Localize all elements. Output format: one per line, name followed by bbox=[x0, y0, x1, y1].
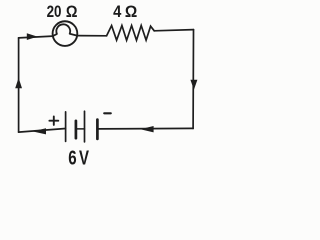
svg-text:4: 4 bbox=[113, 2, 122, 21]
wire bottom-right horizontal bbox=[98, 127, 194, 130]
battery B1 plate short 1 bbox=[75, 121, 78, 138]
battery B1 plate short 2 (-) bbox=[96, 120, 99, 139]
plus sign of battery bbox=[49, 117, 58, 125]
svg-text:6: 6 bbox=[68, 148, 76, 166]
resistor R1 zigzag (4 ohm) bbox=[107, 26, 155, 41]
lamp L1 outer circle (20 ohm) bbox=[53, 21, 78, 46]
minus sign of battery bbox=[104, 112, 111, 114]
wire lamp to resistor bbox=[77, 35, 106, 37]
wire right vertical bbox=[192, 30, 194, 129]
svg-text:Ω: Ω bbox=[66, 2, 78, 21]
wire left vertical bbox=[18, 38, 20, 132]
current arrow down (right wire) bbox=[190, 80, 197, 90]
svg-text:Ω: Ω bbox=[125, 2, 137, 21]
wire top-left horizontal bbox=[19, 36, 53, 38]
battery cell connector wire bbox=[76, 128, 85, 130]
svg-text:20: 20 bbox=[47, 2, 62, 21]
battery B1 plate long 1 (+) bbox=[65, 112, 67, 141]
wire bottom-left horizontal bbox=[19, 129, 66, 133]
current arrow up (left wire) bbox=[15, 78, 22, 89]
svg-text:V: V bbox=[79, 148, 89, 166]
battery B1 plate long 2 bbox=[84, 111, 86, 142]
lamp L1 inner filament arc bbox=[53, 24, 77, 36]
wire resistor to top-right corner bbox=[154, 30, 193, 31]
current arrow right (top wire) bbox=[27, 33, 38, 40]
current arrow left (bottom-left wire) bbox=[32, 128, 46, 134]
current arrow left (bottom-right wire) bbox=[140, 126, 153, 132]
